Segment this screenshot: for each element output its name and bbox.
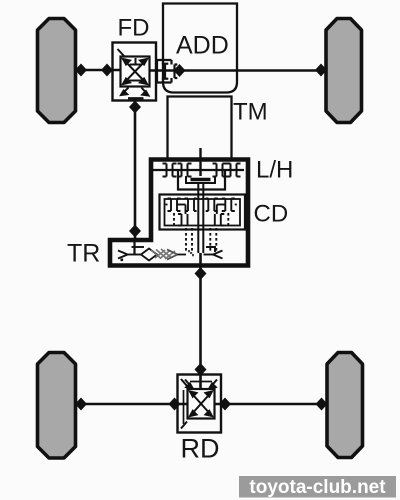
node diamond RD left: [169, 398, 181, 411]
wheel rear-right: [327, 353, 363, 458]
differential CD hollow shaft: [198, 183, 203, 253]
differential RD corner pinion marks: [181, 379, 187, 429]
svg-text:RD: RD: [181, 434, 220, 464]
TM box: [168, 97, 232, 159]
svg-text:L/H: L/H: [256, 157, 293, 184]
differential FD bevel gear cross: [123, 59, 147, 84]
svg-text:TR: TR: [67, 240, 100, 268]
gearset L/H gear pair 1: [163, 164, 177, 177]
watermark toyota-club.net: [239, 476, 396, 498]
differential RD bevel gear cross: [190, 392, 212, 417]
node diamond RL wheel: [75, 398, 87, 411]
wire FD to transfer vertical: [134, 98, 137, 240]
differential FD top pinion: [130, 58, 142, 65]
node diamond FL wheel: [75, 64, 87, 77]
ADD box: [163, 4, 237, 93]
wire transmission output shaft: [199, 148, 201, 176]
differential FD inner gearbox: [121, 57, 150, 87]
differential CD housing outer: [160, 195, 246, 230]
differential CD right gear cluster: [206, 199, 237, 252]
differential CD left gear cluster: [166, 199, 197, 252]
gearset L/H carrier bracket: [178, 170, 225, 190]
wheel front-right: [326, 19, 362, 123]
wheel front-left: [38, 19, 76, 123]
differential RD input Y link: [185, 380, 217, 389]
svg-text:CD: CD: [254, 201, 289, 228]
differential FD bottom side gear: [129, 80, 143, 82]
wheel rear-left: [38, 353, 76, 459]
node diamond FD left: [101, 64, 113, 77]
chain drive fork left: [118, 247, 144, 261]
svg-text:toyota-club.net: toyota-club.net: [249, 477, 386, 498]
wire FD right stub: [150, 69, 177, 71]
wire propeller shaft: [199, 253, 202, 389]
gearset L/H input shaft: [152, 169, 244, 171]
wire rear-right axle: [214, 403, 327, 406]
gearset L/H gear pair 4: [227, 164, 241, 177]
differential CD housing inner: [165, 199, 241, 226]
svg-text:ADD: ADD: [176, 32, 229, 60]
differential FD corner pinion mark: [118, 49, 125, 57]
differential FD outer case: [113, 43, 157, 101]
node diamond above TR: [129, 225, 141, 238]
node diamond FR wheel: [315, 64, 327, 77]
transfer TR housing: [110, 160, 248, 266]
chain drive link symbol: [141, 249, 193, 261]
gearset L/H range sleeve: [186, 176, 215, 183]
chain drive fork right: [204, 247, 223, 259]
wire rear-left axle: [76, 403, 189, 406]
wire front-right axle: [175, 69, 326, 72]
differential FD ring-gear link: [121, 88, 149, 99]
gearset L/H gear pair 3: [213, 164, 227, 177]
node diamond RR wheel: [316, 398, 328, 411]
svg-text:FD: FD: [118, 15, 150, 42]
differential RD case line: [183, 390, 185, 424]
node diamond ADD coupling right: [174, 64, 186, 77]
wire front-left axle: [76, 69, 121, 72]
svg-text:TM: TM: [233, 99, 268, 126]
differential RD inner gearbox: [188, 389, 215, 419]
node diamond RD right: [219, 398, 231, 411]
node diamond below TR: [195, 267, 207, 280]
coupling ADD dog clutch: [157, 60, 177, 83]
node diamond above RD: [195, 363, 207, 376]
differential RD outer case: [178, 375, 222, 433]
gearset L/H gear pair 2: [178, 164, 192, 177]
node diamond below FD: [129, 101, 141, 114]
wire transfer front output: [133, 242, 135, 255]
